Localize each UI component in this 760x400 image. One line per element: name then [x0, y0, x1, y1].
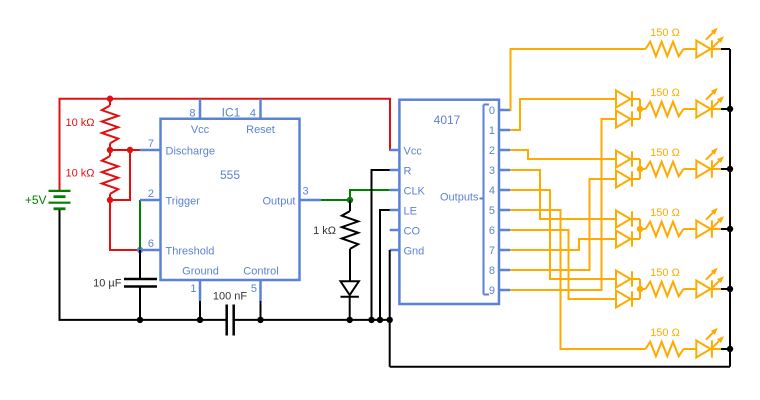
wire LED cathode row 3 — [712, 168, 721, 170]
node R rail — [368, 317, 374, 323]
pin 8 output stub — [499, 269, 510, 272]
resistor R1 10 k&#937; — [109, 99, 111, 106]
svg-text:Outputs: Outputs — [440, 191, 479, 203]
LED row 1 — [696, 41, 710, 58]
svg-text:4: 4 — [489, 185, 495, 197]
wire diode merge D3 — [639, 159, 641, 179]
wire bottom return — [390, 366, 730, 368]
wire merge to resistor row 2 — [640, 108, 646, 110]
pin R stub — [390, 169, 400, 172]
svg-text:6: 6 — [148, 238, 154, 250]
svg-text:CLK: CLK — [404, 186, 426, 198]
resistor R2 10 k&#937; — [109, 150, 111, 156]
wire output 2 route — [510, 150, 616, 159]
pin 4 output stub — [499, 189, 510, 192]
diode D5b — [616, 291, 631, 308]
wire LED cathode row 2 — [712, 108, 721, 110]
wire output 3 route — [510, 170, 616, 219]
LED row 4 — [696, 221, 710, 238]
node diode merge D3 — [637, 166, 643, 172]
wire output 4 route — [510, 190, 616, 279]
svg-text:R: R — [404, 166, 412, 178]
wire diode merge D2 — [639, 99, 641, 119]
svg-text:3: 3 — [489, 165, 495, 177]
wire output 9 route — [510, 119, 616, 290]
svg-text:Reset: Reset — [246, 124, 275, 136]
wire merge to resistor row 5 — [640, 288, 646, 290]
pin 3 Output stub — [300, 199, 322, 202]
wire resistor to LED row 5 — [683, 288, 696, 290]
svg-text:+5V: +5V — [25, 193, 47, 207]
pin 2 output stub — [499, 149, 510, 152]
node R2 bottom — [107, 197, 113, 203]
node LE rail — [377, 317, 383, 323]
svg-text:Control: Control — [243, 266, 278, 278]
LED row 2 — [696, 101, 710, 118]
pin 9 output stub — [499, 289, 510, 292]
diode D2a — [616, 91, 631, 108]
node diode merge D4 — [637, 226, 643, 232]
node C1 ground — [137, 317, 143, 323]
bracket outputs — [483, 105, 485, 295]
node Gnd rail corner — [387, 317, 393, 323]
svg-text:Vcc: Vcc — [191, 124, 210, 136]
wire merge to resistor row 3 — [640, 168, 646, 170]
svg-text:1 kΩ: 1 kΩ — [313, 225, 336, 237]
svg-text:Vcc: Vcc — [404, 146, 423, 158]
svg-text:Discharge: Discharge — [166, 146, 216, 158]
pin 6 Threshold stub — [140, 249, 161, 252]
wire resistor to LED row 3 — [683, 168, 696, 170]
svg-text:IC1: IC1 — [222, 106, 241, 120]
wire D1 to rail — [349, 297, 351, 320]
node LED return row 4 — [727, 226, 733, 232]
wire pin 1 to ground rail — [199, 301, 201, 320]
resistor R3 1 k&#937; — [349, 200, 351, 211]
wire diode merge D4 — [639, 219, 641, 239]
wire LED cathode row 5 — [712, 288, 721, 290]
svg-text:150 Ω: 150 Ω — [650, 27, 680, 39]
svg-text:8: 8 — [489, 265, 495, 277]
svg-text:5: 5 — [251, 283, 257, 295]
wire output 8 route — [510, 179, 616, 270]
node LED return row 5 — [727, 286, 733, 292]
wire output 6 route — [510, 230, 616, 299]
pin 7 Discharge stub — [140, 149, 161, 152]
LED row 5 — [696, 281, 710, 298]
wire merge to resistor row 4 — [640, 228, 646, 230]
pin 4 Reset stub — [259, 99, 262, 119]
wire +5V red supply rail — [60, 99, 400, 191]
node threshold junction — [137, 247, 143, 253]
diode D1 — [341, 281, 359, 295]
node diode merge D5 — [637, 286, 643, 292]
pin 5 output stub — [499, 209, 510, 212]
pin 3 output stub — [499, 169, 510, 172]
wire ground rail right section — [234, 319, 390, 321]
wire diode merge D5 — [639, 279, 641, 299]
node D1 rail — [347, 317, 353, 323]
pin 2 Trigger stub — [140, 199, 161, 202]
svg-text:LE: LE — [404, 206, 417, 218]
wire trigger to threshold link — [139, 200, 141, 250]
svg-text:4: 4 — [250, 108, 256, 120]
wire LED cathode row 6 — [712, 348, 721, 350]
wire R2 bypass — [110, 150, 130, 200]
node R1/R2 junction — [107, 147, 113, 153]
pin 0 output stub — [499, 109, 510, 112]
pin CO stub — [390, 229, 400, 232]
diode D4a — [616, 211, 631, 228]
diode D5a — [616, 271, 631, 288]
node pin5 rail — [257, 317, 263, 323]
LED row 6 — [696, 341, 710, 358]
wire LED return rail — [729, 49, 731, 367]
pin CLK stub — [390, 189, 400, 192]
pin 8 Vcc stub — [199, 99, 202, 119]
pin 6 output stub — [499, 229, 510, 232]
wire LE to ground — [380, 210, 390, 320]
wire battery negative to ground rail — [60, 210, 227, 320]
svg-text:7: 7 — [489, 245, 495, 257]
svg-text:9: 9 — [489, 285, 495, 297]
wire resistor to LED row 2 — [683, 108, 696, 110]
pin Vcc stub — [390, 149, 400, 152]
svg-text:1: 1 — [190, 283, 196, 295]
wire LED cathode row 1 — [712, 48, 721, 50]
tick Outputs pointer — [480, 198, 484, 200]
pin Gnd stub — [390, 249, 400, 252]
resistor 150 &#937; row 4 — [646, 222, 684, 237]
svg-text:150 Ω: 150 Ω — [650, 327, 680, 339]
capacitor C1 10 uF — [139, 250, 141, 279]
svg-text:CO: CO — [404, 226, 421, 238]
wire output 7 route — [510, 239, 616, 250]
wire output node green — [321, 199, 350, 201]
svg-text:10 kΩ: 10 kΩ — [65, 168, 94, 180]
wire output 5 route — [510, 210, 645, 349]
svg-text:10 kΩ: 10 kΩ — [65, 117, 94, 129]
svg-text:150 Ω: 150 Ω — [650, 207, 680, 219]
svg-text:6: 6 — [489, 225, 495, 237]
wire resistor to LED row 4 — [683, 228, 696, 230]
resistor 150 &#937; row 1 — [646, 42, 684, 57]
diode D2b — [616, 111, 631, 128]
svg-text:2: 2 — [148, 188, 154, 200]
svg-text:555: 555 — [220, 168, 240, 182]
op-amp U2 4017 body — [399, 100, 499, 304]
wire LED cathode row 4 — [712, 228, 721, 230]
node LED return row 6 — [727, 346, 733, 352]
wire pin 5 to rail — [260, 301, 262, 320]
node LED return row 3 — [727, 166, 733, 172]
svg-text:150 Ω: 150 Ω — [650, 267, 680, 279]
node discharge wire junction — [127, 147, 133, 153]
svg-text:Output: Output — [262, 196, 295, 208]
wire Gnd down — [389, 250, 391, 367]
svg-text:1: 1 — [489, 125, 495, 137]
wire R2 bottom to threshold node — [110, 200, 140, 250]
wire resistor to LED row 1 — [683, 48, 696, 50]
node pin1 ground — [197, 317, 203, 323]
wire output 1 route — [510, 99, 616, 130]
svg-text:7: 7 — [148, 138, 154, 150]
wire junction to discharge pin — [110, 149, 140, 151]
diode D3a — [616, 151, 631, 168]
svg-text:10 µF: 10 µF — [93, 277, 122, 289]
wire output 0 route — [510, 49, 645, 110]
pin LE stub — [390, 209, 400, 212]
pin 1 output stub — [499, 129, 510, 132]
resistor 150 &#937; row 5 — [646, 282, 684, 297]
svg-text:Ground: Ground — [182, 266, 219, 278]
resistor 150 &#937; row 3 — [646, 162, 684, 177]
svg-text:5: 5 — [489, 205, 495, 217]
svg-text:2: 2 — [489, 145, 495, 157]
svg-text:150 Ω: 150 Ω — [650, 147, 680, 159]
svg-text:Gnd: Gnd — [404, 246, 425, 258]
svg-text:4017: 4017 — [434, 113, 461, 127]
battery B1 +5V — [49, 190, 71, 192]
wire output to CLK — [350, 190, 390, 200]
op-amp U1 555 timer body — [161, 119, 300, 280]
node LED return row 2 — [727, 106, 733, 112]
LED row 3 — [696, 161, 710, 178]
resistor 150 &#937; row 2 — [646, 102, 684, 117]
svg-text:100 nF: 100 nF — [213, 291, 248, 303]
diode D4b — [616, 231, 631, 248]
svg-text:150 Ω: 150 Ω — [650, 87, 680, 99]
node diode merge D2 — [637, 106, 643, 112]
diode D3b — [616, 171, 631, 188]
pin 7 output stub — [499, 249, 510, 252]
wire R to ground — [372, 170, 390, 320]
wire resistor to LED row 6 — [683, 348, 696, 350]
resistor 150 &#937; row 6 — [646, 342, 684, 357]
pin 5 Control stub — [259, 280, 262, 301]
svg-text:3: 3 — [303, 186, 309, 198]
node supply rail / R1 junction — [107, 96, 113, 102]
svg-text:0: 0 — [489, 105, 495, 117]
capacitor C2 100 nF — [225, 305, 228, 336]
svg-text:Trigger: Trigger — [166, 196, 201, 208]
svg-text:Threshold: Threshold — [166, 246, 215, 258]
svg-text:8: 8 — [189, 108, 195, 120]
node output junction — [347, 197, 353, 203]
pin 1 Ground stub — [199, 280, 202, 301]
